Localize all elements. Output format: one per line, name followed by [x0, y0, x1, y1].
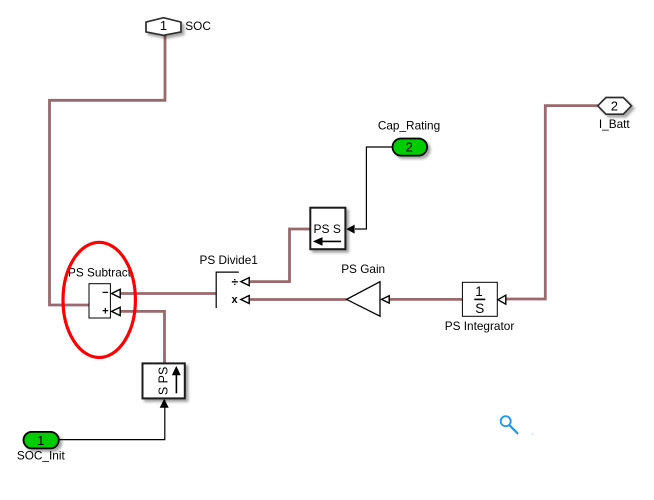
svg-text:S: S — [475, 301, 484, 316]
svg-text:PS Gain: PS Gain — [341, 262, 385, 276]
svg-text:PS S: PS S — [314, 222, 341, 236]
svg-text:2: 2 — [611, 98, 618, 113]
svg-text:S PS: S PS — [156, 367, 170, 396]
svg-text:+: + — [102, 306, 108, 318]
svg-text:1: 1 — [37, 433, 44, 448]
svg-text:÷: ÷ — [232, 275, 239, 289]
svg-text:1: 1 — [475, 284, 483, 299]
svg-text:PS Divide1: PS Divide1 — [200, 253, 258, 267]
svg-text:−: − — [102, 287, 108, 299]
svg-text:1: 1 — [160, 18, 167, 33]
svg-text:I_Batt: I_Batt — [599, 117, 631, 131]
svg-text:SOC_Init: SOC_Init — [17, 449, 66, 463]
svg-text:SOC: SOC — [185, 19, 211, 33]
svg-text:x: x — [232, 294, 239, 306]
svg-text:PS Integrator: PS Integrator — [445, 319, 515, 333]
svg-text:Cap_Rating: Cap_Rating — [378, 119, 440, 133]
svg-text:PS Subtract: PS Subtract — [68, 265, 132, 279]
svg-text:2: 2 — [406, 140, 413, 155]
